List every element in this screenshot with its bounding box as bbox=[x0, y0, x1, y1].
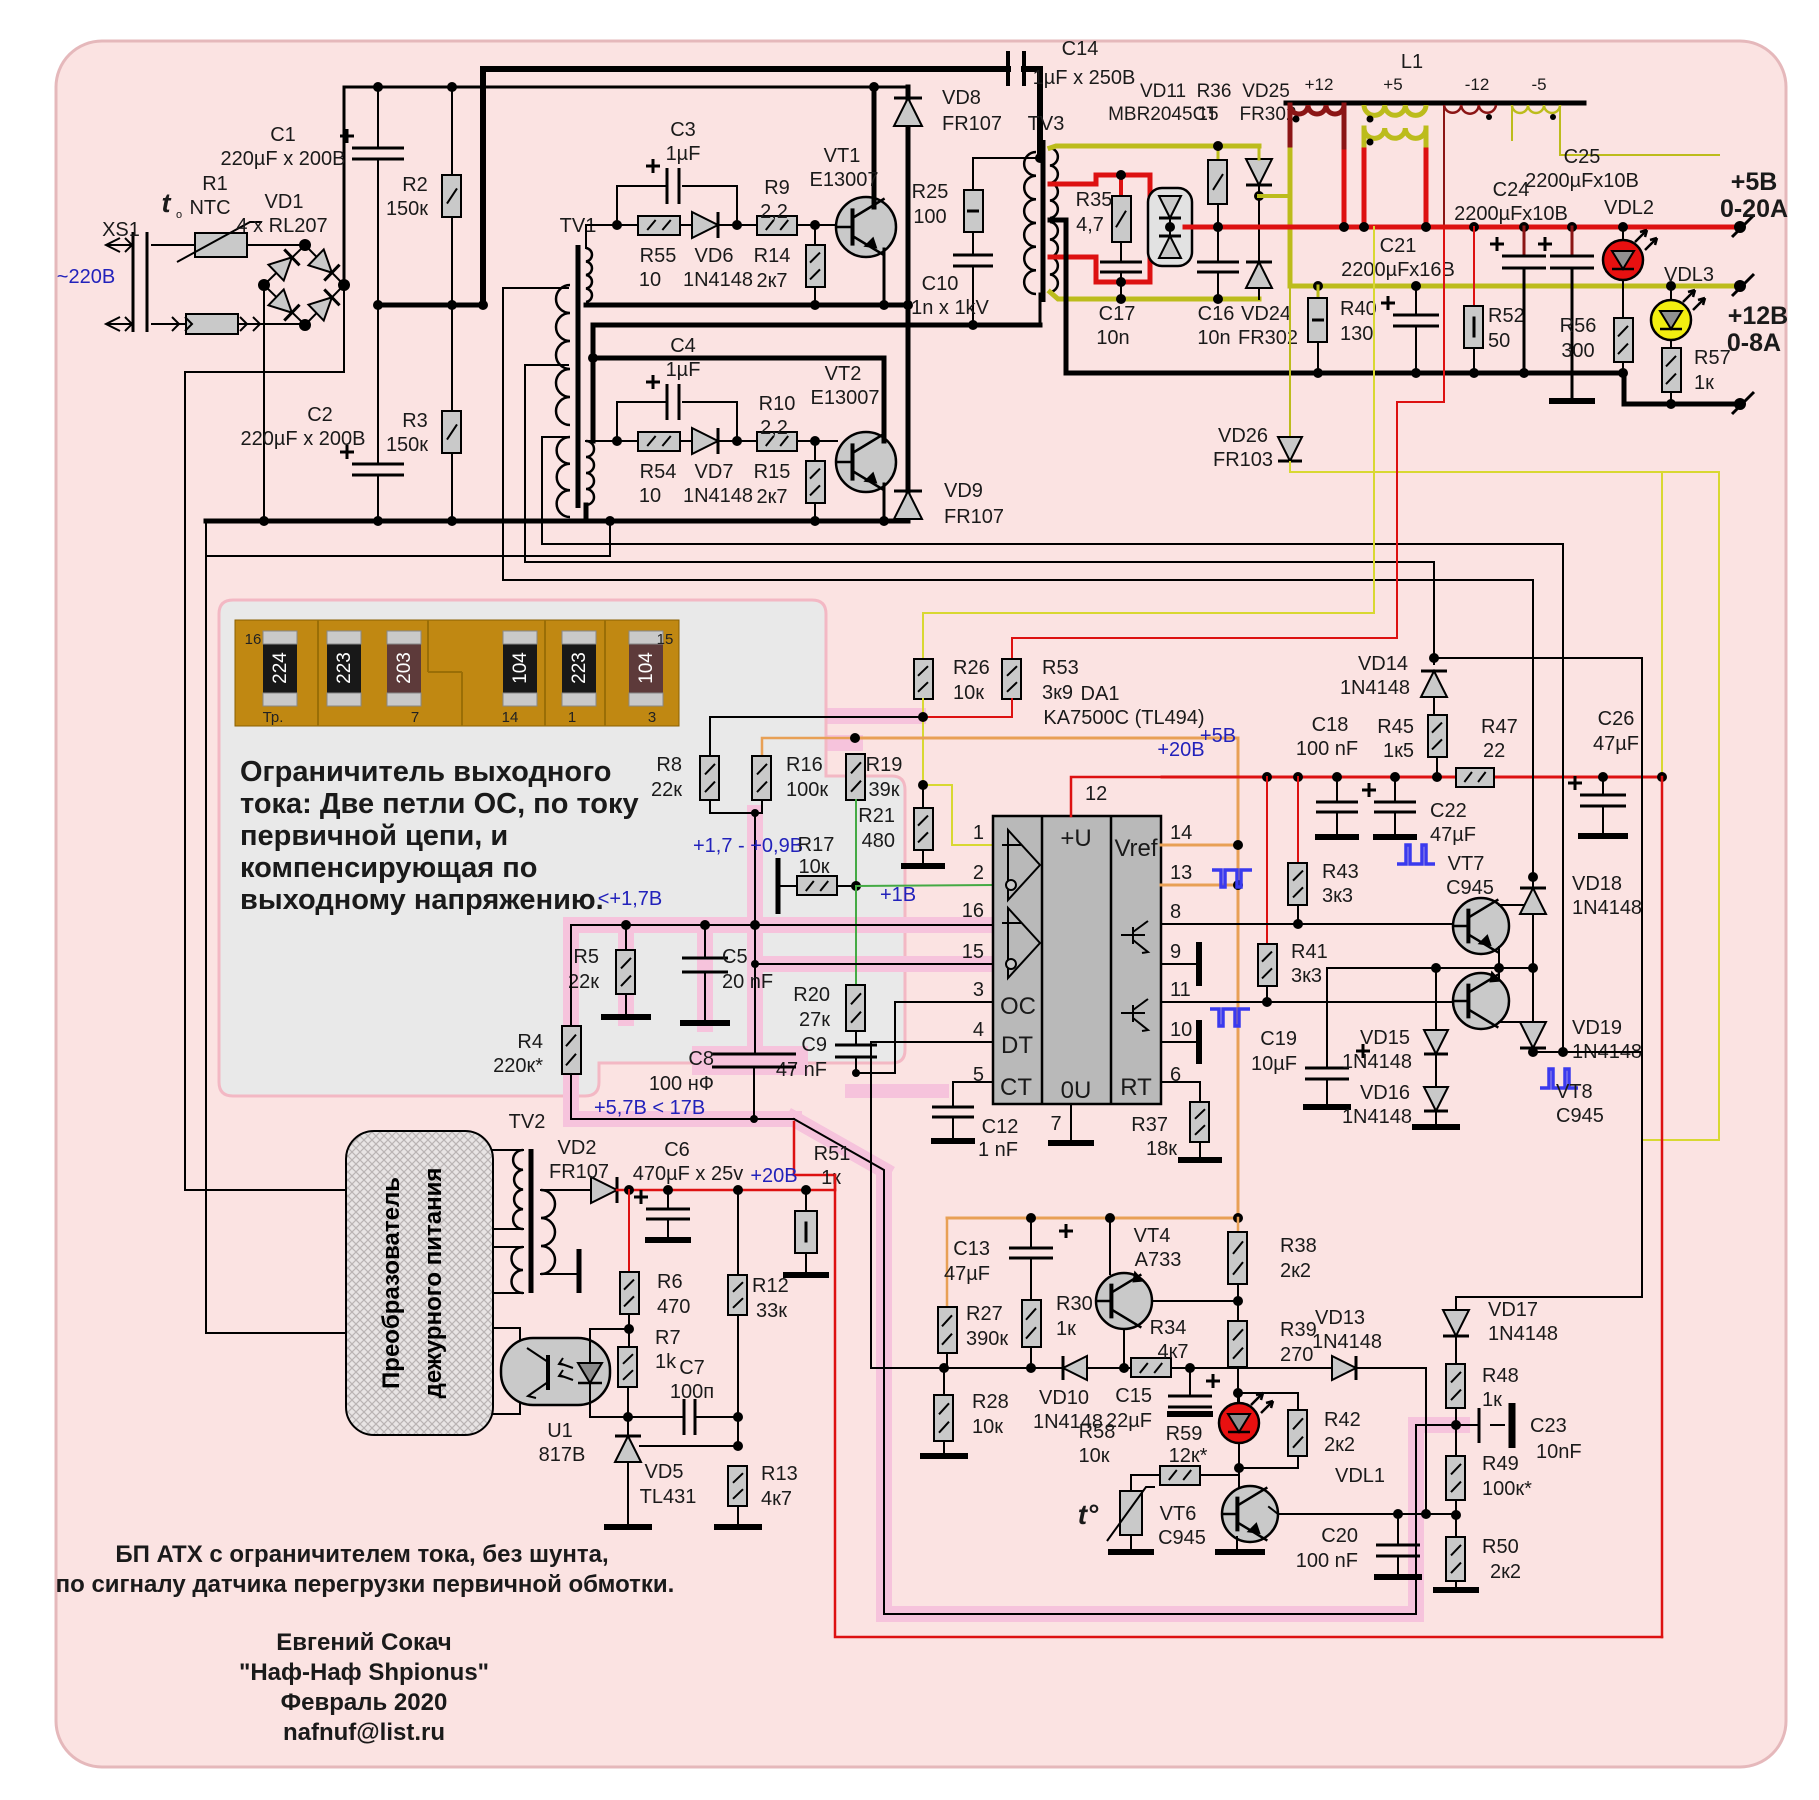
svg-text:224: 224 bbox=[270, 652, 291, 684]
svg-text:+1В: +1В bbox=[880, 884, 916, 906]
resistor R40 bbox=[1317, 286, 1320, 298]
svg-text:1µF x 250В: 1µF x 250В bbox=[1033, 67, 1136, 89]
svg-text:R4: R4 bbox=[517, 1031, 543, 1053]
svg-text:R2: R2 bbox=[402, 174, 428, 196]
resistor R4 bbox=[570, 925, 572, 1026]
svg-text:C23: C23 bbox=[1530, 1415, 1567, 1437]
svg-text:U1: U1 bbox=[547, 1420, 573, 1442]
svg-text:тока: Две петли ОС, по току: тока: Две петли ОС, по току bbox=[240, 788, 639, 820]
svg-text:R55: R55 bbox=[640, 245, 677, 267]
svg-text:1N4148: 1N4148 bbox=[1340, 677, 1410, 699]
resistor R47 bbox=[1456, 768, 1494, 787]
wire sense loop bottom bbox=[794, 1119, 1456, 1614]
wire yellow to +20 node bbox=[1661, 472, 1663, 776]
svg-text:R39: R39 bbox=[1280, 1319, 1317, 1341]
diode VD26 bbox=[1289, 286, 1291, 437]
wire top thick bus bbox=[483, 69, 1008, 305]
node VD7 left bbox=[617, 440, 638, 442]
wire pin11 row bbox=[1161, 1001, 1455, 1003]
svg-text:2к2: 2к2 bbox=[1490, 1561, 1521, 1583]
VT4 base wire bbox=[1152, 1300, 1238, 1302]
svg-text:o: o bbox=[176, 209, 182, 221]
resistor R28 bbox=[943, 1368, 945, 1395]
svg-text:10n: 10n bbox=[1197, 327, 1230, 349]
resistor R42 bbox=[1238, 1393, 1298, 1410]
TV3 secondary winding bottom bbox=[1050, 222, 1058, 292]
resistor R6 bbox=[628, 1190, 630, 1272]
DT row bbox=[871, 1367, 1332, 1369]
svg-text:1k: 1k bbox=[655, 1351, 677, 1373]
TV2 winding left top bbox=[513, 1150, 523, 1229]
VT6 emitter bbox=[1236, 1537, 1238, 1549]
svg-text:47µF: 47µF bbox=[1430, 824, 1476, 846]
capacitor C18 bbox=[1336, 777, 1338, 802]
emitter rail VT1 bbox=[586, 303, 908, 308]
wire VT8 collector loop bbox=[1533, 1051, 1642, 1053]
resistor R39 bbox=[1228, 1321, 1247, 1367]
svg-text:270: 270 bbox=[1280, 1344, 1313, 1366]
svg-text:R43: R43 bbox=[1322, 861, 1359, 883]
svg-text:16: 16 bbox=[962, 900, 984, 922]
svg-text:1N4148: 1N4148 bbox=[1342, 1106, 1412, 1128]
svg-text:220к*: 220к* bbox=[493, 1055, 543, 1077]
node C1 top bbox=[373, 82, 383, 92]
wire +20 node row bbox=[617, 1189, 835, 1192]
IC DA1 KA7500C body bbox=[993, 816, 1161, 1104]
svg-text:2200µFx16В: 2200µFx16В bbox=[1341, 259, 1455, 281]
transistor VT1 E13007 bbox=[836, 197, 896, 257]
svg-text:104: 104 bbox=[636, 652, 657, 684]
resistor R53 bbox=[1002, 659, 1021, 699]
svg-text:C7: C7 bbox=[679, 1357, 705, 1379]
svg-text:TL431: TL431 bbox=[640, 1486, 697, 1508]
resistor R7 bbox=[628, 1314, 630, 1347]
diode VD18 bbox=[1520, 888, 1546, 914]
svg-text:C945: C945 bbox=[1446, 877, 1494, 899]
svg-text:VD7: VD7 bbox=[695, 461, 734, 483]
svg-text:nafnuf@list.ru: nafnuf@list.ru bbox=[283, 1719, 445, 1746]
resistor R21 bbox=[922, 785, 924, 808]
wire VT2 bottom rail bbox=[608, 519, 908, 524]
SMD cap 203 bbox=[387, 631, 421, 706]
svg-text:3к3: 3к3 bbox=[1322, 885, 1353, 907]
svg-text:220µF x 200В: 220µF x 200В bbox=[221, 148, 346, 170]
resistor R5 bbox=[625, 925, 627, 950]
svg-text:KA7500C (TL494): KA7500C (TL494) bbox=[1043, 707, 1204, 729]
TV3 primary winding bbox=[1024, 152, 1036, 294]
diode VD2 bbox=[591, 1177, 617, 1203]
capacitor C25 bbox=[1571, 227, 1574, 256]
svg-text:VD11: VD11 bbox=[1140, 81, 1186, 102]
thermistor R58 bbox=[1131, 1475, 1160, 1491]
wire L1 +12 right lead bbox=[1342, 105, 1347, 152]
svg-text:10µF: 10µF bbox=[1251, 1053, 1297, 1075]
resistor R36 bbox=[1217, 146, 1220, 160]
resistor R57 bbox=[1662, 348, 1681, 392]
LED VDL3 bbox=[1670, 286, 1672, 300]
svg-text:14: 14 bbox=[1170, 822, 1192, 844]
TV1 top lead bbox=[586, 225, 617, 248]
svg-text:+20В: +20В bbox=[750, 1165, 797, 1187]
capacitor C10 bbox=[953, 254, 993, 257]
resistor R45 bbox=[1433, 697, 1435, 715]
diode VD6 bbox=[680, 224, 692, 226]
svg-text:FR107: FR107 bbox=[942, 113, 1002, 135]
standby converter box bbox=[346, 1131, 493, 1435]
svg-text:47µF: 47µF bbox=[944, 1263, 990, 1285]
svg-text:R16: R16 bbox=[786, 754, 823, 776]
svg-text:100к*: 100к* bbox=[1482, 1478, 1532, 1500]
svg-text:4 x RL207: 4 x RL207 bbox=[236, 215, 327, 237]
svg-text:16: 16 bbox=[245, 631, 262, 648]
svg-text:компенсирующая по: компенсирующая по bbox=[240, 852, 537, 884]
svg-text:R6: R6 bbox=[657, 1271, 683, 1293]
capacitor C21 bbox=[1415, 286, 1417, 315]
wire R53 to sense node bbox=[923, 699, 1012, 717]
svg-text:R34: R34 bbox=[1150, 1317, 1187, 1339]
compensation R20 bbox=[855, 886, 857, 985]
capacitor C8 bbox=[712, 1053, 796, 1056]
svg-text:C20: C20 bbox=[1321, 1525, 1358, 1547]
wire R19 bottom green bbox=[855, 800, 857, 885]
svg-text:22: 22 bbox=[1483, 740, 1505, 762]
svg-text:~220В: ~220В bbox=[57, 266, 115, 288]
svg-text:R20: R20 bbox=[793, 984, 830, 1006]
svg-text:2200µFx10В: 2200µFx10В bbox=[1525, 170, 1639, 192]
svg-text:Преобразователь: Преобразователь bbox=[378, 1177, 405, 1389]
svg-text:VD6: VD6 bbox=[695, 245, 734, 267]
svg-text:R13: R13 bbox=[761, 1463, 798, 1485]
capacitor C17 bbox=[1120, 242, 1122, 262]
common output arrow bbox=[1734, 398, 1746, 410]
svg-text:R47: R47 bbox=[1481, 716, 1518, 738]
svg-text:1: 1 bbox=[973, 822, 984, 844]
svg-text:10к: 10к bbox=[953, 682, 984, 704]
svg-text:9: 9 bbox=[1170, 941, 1181, 963]
node VD6 left bbox=[617, 224, 638, 226]
diode VD15 bbox=[1435, 968, 1437, 1029]
wire left to standby box upper bbox=[185, 372, 346, 1190]
resistor R59 bbox=[1160, 1466, 1200, 1485]
svg-text:VD5: VD5 bbox=[645, 1461, 684, 1483]
node R2 top bbox=[447, 82, 457, 92]
svg-text:Февраль 2020: Февраль 2020 bbox=[281, 1689, 448, 1716]
svg-text:VD16: VD16 bbox=[1360, 1082, 1410, 1104]
svg-text:C26: C26 bbox=[1598, 708, 1635, 730]
wire yellow long right bbox=[1643, 472, 1719, 1140]
svg-text:VT1: VT1 bbox=[824, 145, 861, 167]
PCB photo block bbox=[235, 620, 679, 726]
node VT2 base bbox=[810, 436, 820, 446]
LED VDL2 bbox=[1622, 227, 1624, 240]
capacitor C23 bbox=[1456, 1424, 1479, 1426]
wire olive bottom tap bbox=[1050, 292, 1259, 299]
transistor VT2 E13007 bbox=[836, 432, 896, 492]
svg-text:VDL3: VDL3 bbox=[1664, 264, 1714, 286]
svg-text:VD10: VD10 bbox=[1039, 1387, 1089, 1409]
capacitor C13 bbox=[1030, 1218, 1032, 1248]
svg-text:<+1,7В: <+1,7В bbox=[598, 888, 663, 910]
svg-text:R52: R52 bbox=[1488, 305, 1525, 327]
wire L1 -12 lead sense bbox=[1443, 107, 1445, 227]
svg-text:C2: C2 bbox=[307, 404, 333, 426]
pink highlight over panel bbox=[571, 917, 905, 933]
resistor R13 bbox=[728, 1466, 747, 1506]
svg-text:R12: R12 bbox=[752, 1275, 789, 1297]
TV2 winding left bottom bbox=[512, 1247, 524, 1293]
TV2 lead wires bbox=[493, 1149, 523, 1151]
connector XS1 bbox=[152, 244, 195, 246]
diode VD17 bbox=[1455, 1297, 1457, 1310]
svg-text:100: 100 bbox=[913, 206, 946, 228]
svg-text:A733: A733 bbox=[1135, 1249, 1182, 1271]
svg-text:100 nF: 100 nF bbox=[1296, 1550, 1358, 1572]
svg-text:47 nF: 47 nF bbox=[776, 1059, 827, 1081]
svg-text:R56: R56 bbox=[1560, 315, 1597, 337]
svg-text:E13007: E13007 bbox=[811, 387, 880, 409]
svg-text:15: 15 bbox=[657, 631, 674, 648]
svg-text:R59: R59 bbox=[1166, 1423, 1203, 1445]
wire yellow VD26 out bbox=[1290, 471, 1719, 473]
svg-text:VDL2: VDL2 bbox=[1604, 197, 1654, 219]
svg-text:C12: C12 bbox=[982, 1116, 1019, 1138]
bridge rectifier VD1 bbox=[264, 245, 344, 325]
svg-text:223: 223 bbox=[569, 652, 590, 684]
TV1 secondary tap 3 bbox=[542, 437, 1563, 544]
svg-text:Тр.: Тр. bbox=[263, 709, 284, 726]
diode VD19 bbox=[1532, 968, 1534, 1022]
resistor R52 bbox=[1473, 227, 1475, 306]
svg-text:33к: 33к bbox=[756, 1300, 787, 1322]
wire yellow sense to R26 bbox=[923, 227, 1374, 659]
svg-text:1n x 1kV: 1n x 1kV bbox=[911, 297, 989, 319]
IC pin5 capacitor C12 bbox=[953, 1082, 993, 1107]
waveform glyph pin8 bbox=[1212, 870, 1252, 887]
capacitor C7 bbox=[628, 1416, 684, 1418]
svg-text:1к: 1к bbox=[1056, 1318, 1076, 1340]
capacitor C14 bbox=[1008, 51, 1024, 86]
node VT1 base bbox=[810, 220, 820, 230]
svg-text:1µF: 1µF bbox=[666, 359, 701, 381]
svg-text:150к: 150к bbox=[386, 198, 428, 220]
resistor R25 bbox=[972, 158, 974, 190]
node VT1 collector top bbox=[869, 82, 879, 92]
svg-text:VD24: VD24 bbox=[1241, 303, 1291, 325]
svg-text:1к: 1к bbox=[1694, 372, 1714, 394]
svg-text:БП ATX с ограничителем тока, б: БП ATX с ограничителем тока, без шунта, bbox=[115, 1541, 608, 1568]
svg-text:R7: R7 bbox=[655, 1327, 681, 1349]
svg-text:2200µFx10В: 2200µFx10В bbox=[1454, 203, 1568, 225]
svg-text:R25: R25 bbox=[912, 181, 949, 203]
svg-text:L1: L1 bbox=[1401, 51, 1423, 73]
svg-text:10n: 10n bbox=[1096, 327, 1129, 349]
wire C9 to pin3 bbox=[856, 1002, 993, 1073]
optocoupler U1 bbox=[501, 1338, 610, 1405]
svg-text:первичной цепи, и: первичной цепи, и bbox=[240, 820, 508, 852]
IC pin4 wire to DT row bbox=[871, 1042, 993, 1368]
resistor R16 bbox=[752, 756, 771, 800]
wire olive VD25 out bbox=[1259, 194, 1290, 198]
svg-text:R28: R28 bbox=[972, 1391, 1009, 1413]
resistor R3 bbox=[451, 305, 453, 411]
svg-text:10: 10 bbox=[639, 485, 661, 507]
wire row pin15 bbox=[755, 963, 993, 965]
capacitor C2 bbox=[377, 305, 379, 464]
resistor R26 bbox=[914, 659, 933, 699]
svg-text:VT8: VT8 bbox=[1556, 1081, 1593, 1103]
svg-text:R21: R21 bbox=[858, 805, 895, 827]
VT7 collector wire bbox=[1499, 877, 1533, 905]
VT4 collector bbox=[1123, 1329, 1125, 1368]
TV1 primary winding top bbox=[586, 248, 592, 302]
svg-text:R48: R48 bbox=[1482, 1365, 1519, 1387]
svg-text:39к: 39к bbox=[869, 779, 900, 801]
resistor R30 bbox=[1022, 1300, 1041, 1347]
svg-text:4к7: 4к7 bbox=[1158, 1341, 1189, 1363]
svg-text:1N4148: 1N4148 bbox=[1488, 1323, 1558, 1345]
resistor R8 bbox=[700, 756, 719, 800]
wire rectified plus rail bbox=[344, 87, 908, 285]
svg-text:DT: DT bbox=[1001, 1032, 1033, 1059]
svg-text:C8: C8 bbox=[688, 1048, 714, 1070]
transistor VT6 C945 bbox=[1238, 1475, 1240, 1492]
svg-text:+5В: +5В bbox=[1200, 725, 1236, 747]
thermistor R1 NTC bbox=[195, 233, 247, 257]
svg-text:1µF: 1µF bbox=[666, 143, 701, 165]
svg-text:390к: 390к bbox=[966, 1328, 1008, 1350]
svg-text:2к7: 2к7 bbox=[757, 486, 788, 508]
svg-text:C25: C25 bbox=[1564, 146, 1601, 168]
svg-text:15: 15 bbox=[1197, 104, 1218, 125]
TV1 secondary tap 2 bbox=[525, 365, 1434, 562]
waveform glyph VT8 bbox=[1540, 1069, 1578, 1088]
resistor R55 bbox=[638, 216, 680, 235]
resistor R19 bbox=[846, 754, 865, 800]
svg-text:RT: RT bbox=[1120, 1074, 1152, 1101]
SMD cap 223 b bbox=[562, 631, 596, 706]
diode VD13 bbox=[1332, 1356, 1356, 1380]
svg-text:по сигналу датчика перегрузки: по сигналу датчика перегрузки первичной … bbox=[56, 1571, 675, 1598]
VD14 row to VD13 drop bbox=[1434, 658, 1642, 1297]
svg-text:R49: R49 bbox=[1482, 1453, 1519, 1475]
svg-text:1N4148: 1N4148 bbox=[1312, 1331, 1382, 1353]
svg-text:+12В: +12В bbox=[1728, 302, 1788, 330]
red +5V bus bbox=[1185, 225, 1740, 230]
IC pin6 resistor R37 bbox=[1161, 1082, 1200, 1102]
transistor VT7 bbox=[1453, 898, 1509, 954]
svg-text:C945: C945 bbox=[1158, 1527, 1206, 1549]
svg-text:VD17: VD17 bbox=[1488, 1299, 1538, 1321]
svg-text:C9: C9 bbox=[801, 1034, 827, 1056]
VT8 collector wire bbox=[1499, 1021, 1533, 1023]
TV3 secondary winding top bbox=[1050, 148, 1058, 218]
capacitor C19 bbox=[1326, 968, 1328, 1068]
wire R8 R16 join bbox=[710, 800, 762, 813]
emitter junction row bbox=[1327, 967, 1533, 969]
svg-text:C6: C6 bbox=[664, 1139, 690, 1161]
svg-text:C5: C5 bbox=[722, 946, 748, 968]
svg-text:+5: +5 bbox=[1383, 75, 1402, 94]
wire red lower tap bbox=[1050, 257, 1148, 282]
svg-text:E13007: E13007 bbox=[810, 169, 879, 191]
IC op-amp 2 bbox=[1008, 908, 1040, 978]
svg-text:C1: C1 bbox=[270, 124, 296, 146]
svg-text:R58: R58 bbox=[1079, 1421, 1116, 1443]
+5V output arrow bbox=[1734, 221, 1746, 233]
svg-text:DA1: DA1 bbox=[1081, 683, 1120, 705]
svg-text:10к: 10к bbox=[799, 856, 830, 878]
optocoupler internals bbox=[546, 1355, 550, 1390]
diode VD8 bbox=[894, 98, 922, 126]
svg-text:100 нФ: 100 нФ bbox=[649, 1073, 714, 1095]
svg-text:OC: OC bbox=[1000, 993, 1036, 1020]
svg-text:C22: C22 bbox=[1430, 800, 1467, 822]
svg-text:R8: R8 bbox=[656, 754, 682, 776]
svg-text:C10: C10 bbox=[922, 273, 959, 295]
diode VD16 bbox=[1435, 1054, 1437, 1086]
ground bus output bbox=[1050, 220, 1740, 404]
wire olive top tap bbox=[1050, 146, 1259, 148]
svg-text:R10: R10 bbox=[759, 393, 796, 415]
svg-text:VD8: VD8 bbox=[942, 87, 981, 109]
svg-text:VD26: VD26 bbox=[1218, 425, 1268, 447]
wire bottom rail input bbox=[206, 519, 610, 524]
TV1 secondary winding lower bbox=[557, 437, 570, 517]
diode VD25 bbox=[1246, 159, 1272, 185]
svg-text:1к: 1к bbox=[1482, 1389, 1502, 1411]
VT7 emitter wire bbox=[1498, 947, 1500, 968]
node R35 bottom bbox=[1116, 277, 1126, 287]
svg-text:0-20A: 0-20A bbox=[1720, 195, 1788, 223]
svg-text:C19: C19 bbox=[1260, 1028, 1297, 1050]
wire green to pin2 bbox=[856, 885, 993, 886]
ground bar C25 bbox=[1549, 398, 1595, 404]
dual diode VD11 MBR2045CT bbox=[1148, 188, 1192, 266]
svg-text:1к: 1к bbox=[821, 1167, 841, 1189]
wire VD18 top loop bbox=[1532, 580, 1534, 888]
svg-text:10к: 10к bbox=[1079, 1445, 1110, 1467]
svg-text:+20В: +20В bbox=[1157, 739, 1204, 761]
svg-text:12к*: 12к* bbox=[1169, 1445, 1208, 1467]
svg-text:VT2: VT2 bbox=[825, 363, 862, 385]
capacitor C1 bbox=[377, 87, 379, 148]
svg-text:150к: 150к bbox=[386, 434, 428, 456]
svg-text:VD19: VD19 bbox=[1572, 1017, 1622, 1039]
TV1 primary winding bottom bbox=[586, 441, 594, 505]
svg-text:1N4148: 1N4148 bbox=[1572, 897, 1642, 919]
svg-text:10nF: 10nF bbox=[1536, 1441, 1582, 1463]
svg-text:10: 10 bbox=[639, 269, 661, 291]
wire red riser to sense row bbox=[794, 1122, 1662, 1637]
wire VD13 out bbox=[1357, 1368, 1426, 1514]
svg-text:100к: 100к bbox=[786, 779, 828, 801]
svg-text:300: 300 bbox=[1561, 340, 1594, 362]
svg-text:R15: R15 bbox=[754, 461, 791, 483]
resistor R41 bbox=[1266, 777, 1268, 944]
TV1 secondary tap 1 bbox=[503, 288, 1533, 580]
svg-text:-12: -12 bbox=[1465, 75, 1490, 94]
svg-text:R40: R40 bbox=[1340, 298, 1377, 320]
node R35 top bbox=[1119, 175, 1123, 196]
resistor R35 bbox=[1112, 196, 1131, 242]
svg-text:дежурного питания: дежурного питания bbox=[420, 1168, 447, 1399]
capacitor C22 bbox=[1394, 777, 1396, 802]
svg-text:C14: C14 bbox=[1062, 38, 1099, 60]
transistor VT4 A733 bbox=[1109, 1218, 1111, 1274]
svg-text:C18: C18 bbox=[1312, 714, 1349, 736]
svg-text:"Наф-Наф Shpionus": "Наф-Наф Shpionus" bbox=[239, 1659, 489, 1686]
node R9 left bbox=[732, 220, 742, 230]
